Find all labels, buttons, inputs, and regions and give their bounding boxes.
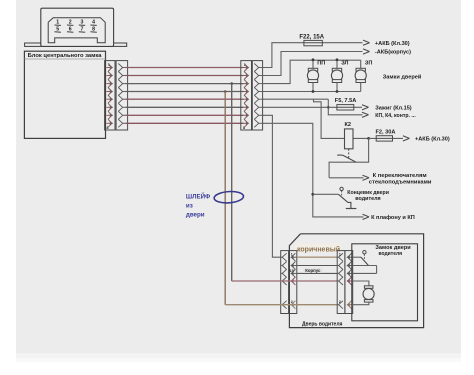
connector X4 pin 5 (339, 301, 343, 309)
svg-text:Зажиг (Кл.15): Зажиг (Кл.15) (375, 106, 412, 112)
svg-text:7: 7 (81, 26, 84, 32)
door loom wire A vertical (224, 92, 226, 305)
junction door switch (311, 193, 314, 196)
svg-text:К плафону и КП: К плафону и КП (371, 214, 415, 221)
wire 2 to -AKB body (263, 52, 363, 76)
door switch feed line (313, 193, 339, 195)
svg-text:F22, 15А: F22, 15А (299, 34, 324, 40)
fuse F5 line through (337, 106, 362, 108)
wire 3 harness run (126, 83, 244, 85)
wire 7 drop to door connector (263, 115, 281, 257)
connector X1 pin 1 (108, 64, 112, 72)
wire 2 harness run (126, 75, 244, 77)
connector X2 pin 1 (244, 64, 248, 72)
connector X2 pin 4 (244, 88, 248, 96)
arrow to window lift switches (363, 175, 370, 178)
connector X3 column A (281, 251, 289, 314)
door wire pin1 brown (297, 256, 337, 258)
fuse F22 body (304, 40, 322, 45)
connector X2 pin 8 (244, 119, 248, 127)
connector X4 pin 2 (339, 262, 343, 270)
connector X4 pin 4 (339, 277, 343, 285)
door limit switch plunger dashes (341, 191, 343, 197)
svg-text:1: 1 (56, 19, 59, 25)
label Korpus background (304, 268, 324, 273)
svg-text:ЗЛ: ЗЛ (341, 60, 348, 66)
door loom wire B vertical (231, 84, 233, 281)
fuse F22 line through (304, 42, 363, 44)
junction wires 5-6 (327, 106, 330, 109)
harness loop ellipse (214, 191, 244, 204)
svg-text:15: 15 (290, 269, 294, 273)
central lock unit U1 box (24, 51, 105, 138)
wire 7 harness run (126, 114, 244, 116)
svg-text:Концевик двери: Концевик двери (347, 190, 389, 196)
door limit switch plunger circle (340, 187, 343, 190)
wire 4 harness run (126, 91, 244, 93)
svg-text:коричневый: коричневый (297, 245, 340, 253)
connector X4 column A (337, 251, 345, 314)
lock switch pin2 line (353, 265, 377, 267)
lock switch plunger dashes (363, 254, 365, 259)
wire 5 drop to KP/K4 line (328, 99, 362, 115)
connector J1 face outline (48, 18, 105, 43)
arrow to plafon (363, 214, 370, 217)
connector X4 pin 3 (339, 269, 343, 277)
svg-text:водителя: водителя (379, 251, 403, 257)
svg-text:F2, 30А: F2, 30А (376, 129, 396, 135)
arrow to -AKB (body) (363, 49, 370, 52)
svg-text:стеклоподъемниками: стеклоподъемниками (369, 179, 432, 185)
connector X2 pin 2 (244, 72, 248, 80)
lock motor M4 bottom cap (364, 300, 373, 303)
wire 4 lock actuators bottom bus (263, 91, 361, 93)
wire 8 harness run (126, 122, 244, 124)
connector X3 pin 2 (282, 262, 286, 270)
wire 8 drop (263, 123, 364, 217)
door limit switch blade (338, 194, 348, 202)
connector X3 column B (289, 251, 297, 314)
connector X3 pin 5 (282, 301, 286, 309)
wire 5 branch to relay K2 coil (314, 99, 345, 138)
fuse F5 body (337, 105, 354, 110)
lock switch blade (361, 257, 369, 265)
wire 1 harness run (126, 67, 244, 69)
arrow to ignition Kl.15 (362, 105, 369, 108)
relay switch blade (343, 155, 357, 162)
connector X1 column A (unit side) (105, 61, 115, 130)
connector X1 pin 7 (108, 111, 112, 119)
connector X2 pin 5 (244, 95, 248, 103)
lock switch return leg (376, 266, 378, 274)
door wire pin2 (297, 265, 337, 267)
connector X2 column B (252, 61, 262, 130)
svg-text:2: 2 (339, 300, 341, 304)
svg-text:КП, К4, контр. ...: КП, К4, контр. ... (375, 113, 416, 119)
relay K2 junction to F2 (367, 137, 370, 140)
driver door box (289, 234, 423, 328)
connector X1 pin 2 (108, 72, 112, 80)
connector X3 pin 4 (282, 277, 286, 285)
lock switch pin3 line (353, 272, 377, 274)
wire 1 to +12V feed (263, 43, 304, 68)
door wire pin4 red (232, 280, 338, 282)
connector J1 housing (41, 8, 114, 46)
connector X2 column A (241, 61, 252, 130)
fuse F22 inner line (304, 42, 322, 44)
svg-text:Замки дверей: Замки дверей (383, 73, 422, 80)
junction on wire 4 to door loom (224, 90, 227, 93)
connector X4 pin 1 (339, 253, 343, 261)
relay switch common line (329, 138, 369, 177)
svg-text:1: 1 (291, 253, 293, 257)
relay K2 actuation dashed link (348, 149, 350, 158)
relay K2 body (345, 129, 354, 149)
connector X1 pin 4 (108, 88, 112, 96)
svg-text:К переключателям: К переключателям (373, 173, 427, 179)
lock switch feed from pin1 (353, 256, 361, 258)
svg-text:1: 1 (339, 253, 341, 257)
junction on wire 3 to door loom (230, 82, 233, 85)
arrow to +AKB (Kl.30) (363, 40, 370, 43)
svg-text:+АКБ (Кл.30): +АКБ (Кл.30) (415, 137, 450, 143)
svg-text:F5, 7.5А: F5, 7.5А (335, 98, 356, 104)
arrow to +AKB Kl.30 lower (403, 136, 410, 139)
wire 3 to lock actuators top bus (263, 60, 361, 83)
actuator M2 ЗЛ (336, 60, 338, 69)
svg-text:из: из (186, 203, 193, 210)
wire 6 to fuse F5 (263, 106, 337, 108)
fuse F2 inner line (376, 137, 392, 139)
lock motor M4 top cap (364, 286, 373, 289)
svg-text:2: 2 (69, 19, 72, 25)
lock motor M4 body (363, 288, 374, 299)
svg-text:К2: К2 (345, 122, 352, 128)
connector X1 pin 8 (108, 119, 112, 127)
line to window lift switches (329, 177, 363, 179)
label brown wire halo (295, 244, 341, 253)
svg-text:Дверь водителя: Дверь водителя (302, 321, 343, 327)
connector X1 column B (harness side) (116, 61, 128, 130)
lock motor feed from pin4 (353, 281, 369, 286)
connector J1 mounting flange (25, 43, 127, 46)
svg-text:3: 3 (81, 19, 84, 25)
connector X1 pin 3 (108, 80, 112, 88)
svg-text:-АКБ(корпус): -АКБ(корпус) (375, 50, 411, 56)
actuator M3 ЗП (360, 60, 362, 69)
arrow to KP K4 (362, 112, 369, 115)
fuse F2 line through (369, 137, 403, 139)
wire 5 run (263, 98, 329, 100)
door wire pin5 brown lower (225, 304, 337, 306)
svg-text:ПП: ПП (317, 60, 325, 66)
connector X2 pin 3 (244, 80, 248, 88)
svg-text:ШЛЕЙФ: ШЛЕЙФ (186, 193, 211, 201)
lock switch plunger circle (363, 251, 366, 254)
connector X1 pin 5 (108, 95, 112, 103)
connector X3 pin 3 (282, 269, 286, 277)
svg-text:6: 6 (69, 26, 72, 32)
connector X2 pin 6 (244, 103, 248, 111)
central lock unit title underline (24, 58, 105, 60)
svg-text:ЗП: ЗП (365, 60, 373, 66)
driver door lock box (352, 244, 418, 321)
wire 5 harness run (126, 98, 244, 100)
svg-text:Корпус: Корпус (305, 268, 321, 273)
fuse F2 body (376, 136, 392, 141)
svg-text:8: 8 (92, 26, 95, 32)
relay K2 coil line (345, 137, 369, 139)
svg-text:+АКБ (Кл.30): +АКБ (Кл.30) (375, 41, 410, 47)
connector X1 pin 6 (108, 103, 112, 111)
svg-text:5: 5 (56, 26, 59, 32)
door limit switch ground leg (348, 202, 351, 208)
fuse F5 inner line (337, 106, 354, 108)
svg-text:2: 2 (291, 300, 293, 304)
svg-text:водителя: водителя (355, 196, 380, 202)
svg-text:двери: двери (186, 211, 205, 218)
relay switch fixed contact stub (337, 154, 342, 156)
lock motor return to pin5 (353, 302, 369, 305)
door wire pin3 Korpus (297, 272, 337, 274)
connector X2 pin 7 (244, 111, 248, 119)
svg-text:Блок центрального замка: Блок центрального замка (28, 53, 103, 59)
connector X4 column B (345, 251, 353, 314)
connector X3 pin 1 (282, 253, 286, 261)
svg-text:4: 4 (92, 19, 95, 25)
wire 6 harness run (126, 106, 244, 108)
door limit switch ground bar (346, 208, 357, 210)
actuator M1 ПП (312, 60, 314, 69)
